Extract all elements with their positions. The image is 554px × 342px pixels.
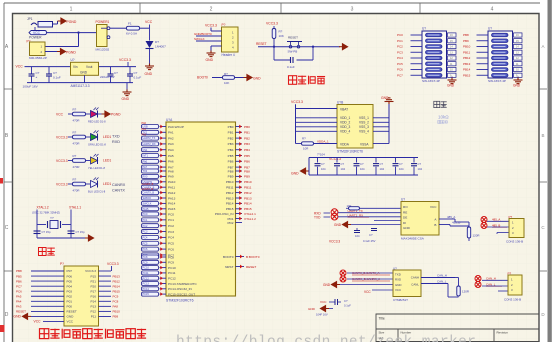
svg-text:C?: C? xyxy=(341,162,345,166)
wire expansion left pin PA5 xyxy=(31,295,64,297)
wire cap branch xyxy=(273,47,275,60)
svg-text:VSS_1: VSS_1 xyxy=(359,116,369,120)
svg-text:VCC: VCC xyxy=(145,20,153,24)
svg-text:GND: GND xyxy=(403,226,411,230)
ground can decoupling xyxy=(320,306,329,312)
svg-text:485_B: 485_B xyxy=(452,221,460,225)
port PC12 for PC12 xyxy=(142,276,159,280)
svg-text:P07: P07 xyxy=(67,269,73,273)
svg-text:P02: P02 xyxy=(67,294,73,298)
svg-text:VCC3.3: VCC3.3 xyxy=(56,135,68,139)
resistor R12 120R can termination xyxy=(457,286,460,296)
svg-text:U?: U? xyxy=(401,198,405,202)
port UART2_TX for PA2 xyxy=(142,136,159,140)
wire expansion right pin PB15 xyxy=(99,290,112,292)
svg-text:CS1: CS1 xyxy=(143,149,148,152)
svg-text:PB6: PB6 xyxy=(16,279,22,283)
svg-text:220uF/16V: 220uF/16V xyxy=(100,75,115,79)
wire txd stub xyxy=(324,216,331,218)
port x CANRX xyxy=(340,276,346,282)
wire P1 pin2 to PGND xyxy=(45,51,57,53)
svg-text:PB0: PB0 xyxy=(228,125,234,129)
svg-text:PB4: PB4 xyxy=(228,148,234,152)
dip element row 4 xyxy=(426,50,443,54)
svg-text:P01: P01 xyxy=(67,300,73,304)
svg-text:PC11: PC11 xyxy=(143,272,150,275)
wire rxd stub xyxy=(324,212,331,214)
note fasong chinese xyxy=(434,101,440,107)
dip element row 4 xyxy=(492,50,509,54)
wires vcc bus to vdd pins xyxy=(295,105,297,144)
label expansion header chinese xyxy=(40,329,49,339)
svg-text:PB10: PB10 xyxy=(463,45,471,49)
port x TXD xyxy=(331,213,338,220)
dip pin cell 3 xyxy=(448,44,457,48)
svg-text:P14: P14 xyxy=(90,300,96,304)
svg-text:PC11: PC11 xyxy=(168,271,176,275)
svg-text:100uF 16V: 100uF 16V xyxy=(23,85,39,89)
wires vss pins to gnd xyxy=(373,117,389,119)
svg-text:VSS_4: VSS_4 xyxy=(359,130,369,134)
svg-text:PA3: PA3 xyxy=(16,305,22,309)
svg-text:P20: P20 xyxy=(90,284,96,288)
port TX0 for PA8 xyxy=(142,169,159,173)
label crystal chinese xyxy=(39,248,47,256)
dip element row 6 xyxy=(426,62,443,66)
port RX0 for PA9 xyxy=(142,174,159,178)
svg-text:PA9: PA9 xyxy=(168,175,174,179)
svg-text:GND: GND xyxy=(14,315,22,319)
svg-text:PC7: PC7 xyxy=(16,284,22,288)
svg-text:POWER: POWER xyxy=(29,36,42,40)
svg-text:P?: P? xyxy=(222,23,226,27)
svg-text:2: 2 xyxy=(210,7,213,13)
window edge gray strip xyxy=(548,0,552,342)
svg-text:PC6: PC6 xyxy=(397,68,403,72)
arrow reset to mcu xyxy=(339,44,348,50)
svg-text:PB9: PB9 xyxy=(113,315,119,319)
svg-text:PB2: PB2 xyxy=(228,136,234,140)
svg-text:PB12: PB12 xyxy=(244,191,252,195)
wires to rs485 connector xyxy=(487,220,509,222)
svg-text:PA1: PA1 xyxy=(142,128,147,131)
svg-text:PB8: PB8 xyxy=(463,33,469,37)
svg-text:PC12: PC12 xyxy=(168,277,176,281)
svg-text:C: C xyxy=(541,225,545,230)
svg-text:CANH: CANH xyxy=(411,275,419,279)
dip element row 1 xyxy=(426,33,443,37)
svg-text:CAN_L: CAN_L xyxy=(437,280,447,284)
svg-text:AMS1117-3.3: AMS1117-3.3 xyxy=(71,84,90,88)
svg-text:PC9: PC9 xyxy=(143,261,148,264)
wire vcc to resistor led 3 xyxy=(68,160,73,162)
zone tick marks right xyxy=(539,88,547,90)
svg-text:PB3: PB3 xyxy=(228,142,234,146)
ground above power block xyxy=(385,98,394,104)
svg-text:PA8: PA8 xyxy=(168,169,174,173)
svg-text:R?: R? xyxy=(73,154,77,158)
svg-text:R?: R? xyxy=(73,131,77,135)
svg-text:RX0: RX0 xyxy=(143,176,148,179)
svg-text:PC0: PC0 xyxy=(397,33,403,37)
svg-text:CAN_H: CAN_H xyxy=(437,274,447,278)
svg-text:SWCLK: SWCLK xyxy=(143,203,152,206)
svg-text:PA3: PA3 xyxy=(168,142,174,146)
svg-text:PC0: PC0 xyxy=(168,212,174,216)
svg-text:C?: C? xyxy=(380,162,384,166)
svg-text:P?: P? xyxy=(60,262,64,266)
svg-text:PD0-OSC_IN: PD0-OSC_IN xyxy=(215,212,234,216)
svg-text:VCC: VCC xyxy=(33,31,41,35)
svg-text:PB12: PB12 xyxy=(226,191,234,195)
zone tick marks left xyxy=(4,88,13,90)
port USB for PA0-WKUP xyxy=(142,125,159,129)
svg-text:PC12: PC12 xyxy=(143,277,150,280)
svg-text:PA4: PA4 xyxy=(16,300,22,304)
svg-text:PC15: PC15 xyxy=(143,293,150,296)
svg-text:485_A: 485_A xyxy=(447,215,455,219)
svg-text:10kΩ: 10kΩ xyxy=(438,115,449,120)
svg-text:PB3: PB3 xyxy=(244,142,250,146)
svg-text:1: 1 xyxy=(70,7,73,13)
dip pin cell 2 xyxy=(448,39,457,43)
svg-text:C?: C? xyxy=(53,71,57,75)
svg-text:GND: GND xyxy=(513,84,521,88)
svg-text:PC13: PC13 xyxy=(143,283,150,286)
ground crystal xyxy=(85,235,94,241)
svg-text:https://blog.csdn.net/zeek_mar: https://blog.csdn.net/zeek_marker xyxy=(176,335,476,342)
svg-text:D: D xyxy=(541,312,545,317)
svg-text:GND: GND xyxy=(323,283,331,287)
svg-text:SWCLK: SWCLK xyxy=(194,37,205,41)
svg-text:P04: P04 xyxy=(67,284,73,288)
power ground PGND at P1 xyxy=(57,49,66,55)
svg-text:PC7: PC7 xyxy=(397,73,403,77)
wire dip left pin PC5 xyxy=(411,63,423,65)
dip pin cell 8 xyxy=(514,73,523,77)
svg-text:CANTX: CANTX xyxy=(112,188,125,192)
svg-text:VCC3.3: VCC3.3 xyxy=(329,240,340,244)
svg-text:VSSA: VSSA xyxy=(360,142,369,146)
svg-text:120R: 120R xyxy=(462,290,469,294)
svg-text:Vout: Vout xyxy=(86,65,92,69)
svg-text:SW-16ST-4P: SW-16ST-4P xyxy=(422,79,440,83)
svg-text:PB9: PB9 xyxy=(228,175,234,179)
svg-text:470R: 470R xyxy=(73,142,80,146)
svg-text:PC8: PC8 xyxy=(168,255,174,259)
svg-text:0.1uF: 0.1uF xyxy=(53,76,61,80)
dip pin cell 2 xyxy=(514,39,523,43)
svg-text:PB8: PB8 xyxy=(16,269,22,273)
svg-text:VCC3.3: VCC3.3 xyxy=(56,182,68,186)
svg-text:PA4: PA4 xyxy=(168,148,174,152)
svg-text:PB5: PB5 xyxy=(16,274,22,278)
svg-text:A: A xyxy=(5,44,9,50)
cap bank bottom rail xyxy=(309,174,418,176)
svg-text:VCC: VCC xyxy=(16,65,24,69)
svg-text:PB15: PB15 xyxy=(244,207,252,211)
wire header pin3 SWCLK xyxy=(196,40,222,42)
svg-text:C?: C? xyxy=(134,71,138,75)
svg-text:PC5: PC5 xyxy=(168,242,174,246)
svg-text:VDD_4: VDD_4 xyxy=(340,130,351,134)
svg-text:PA14: PA14 xyxy=(168,202,176,206)
wire diode to ground xyxy=(149,49,151,64)
port x 485A xyxy=(481,217,487,223)
title block frame xyxy=(376,314,539,342)
port SWCLK for PA14 xyxy=(142,201,159,205)
capacitor C18 104 rs485 xyxy=(371,228,377,230)
svg-text:VSS_2: VSS_2 xyxy=(359,121,369,125)
svg-text:PC1: PC1 xyxy=(143,219,148,222)
svg-text:VCC3.3: VCC3.3 xyxy=(107,262,119,266)
svg-text:RESET: RESET xyxy=(256,42,267,46)
wire vcc to resistor led 2 xyxy=(68,136,73,138)
svg-text:1N4007: 1N4007 xyxy=(155,45,166,49)
port PC6 for PC6 xyxy=(142,247,159,251)
capacitor C3 220uF polarized xyxy=(110,72,112,75)
svg-text:VCC3.3: VCC3.3 xyxy=(56,159,68,163)
svg-text:VCC: VCC xyxy=(364,290,371,294)
svg-text:PC2: PC2 xyxy=(168,224,174,228)
svg-text:CON3 136-B: CON3 136-B xyxy=(506,240,523,244)
svg-text:PC3: PC3 xyxy=(168,230,174,234)
capacitor bank C5 104 xyxy=(317,158,319,163)
wire dip left pin PB11 xyxy=(477,51,489,53)
wire regulator gnd to rail xyxy=(84,75,86,82)
wire VCC to switch xyxy=(47,32,97,34)
port PC7 for PC7 xyxy=(142,253,159,257)
svg-text:PC4: PC4 xyxy=(397,56,403,60)
dip element row 5 xyxy=(426,56,443,60)
svg-text:PB14: PB14 xyxy=(463,68,471,72)
led LED3 xyxy=(91,157,98,164)
svg-text:PA6: PA6 xyxy=(168,160,174,164)
resistor R3 10K pullup xyxy=(272,29,276,39)
power ground at boot resistor xyxy=(244,75,253,81)
dip right bus to gnd xyxy=(451,77,453,78)
svg-text:P17: P17 xyxy=(90,289,96,293)
svg-text:P00: P00 xyxy=(67,305,73,309)
svg-text:Vin: Vin xyxy=(73,65,78,69)
svg-text:10K: 10K xyxy=(224,81,229,85)
diode D1 1N4007 xyxy=(146,41,154,48)
svg-text:BOOT0: BOOT0 xyxy=(223,255,234,259)
red edge mark 2 xyxy=(0,325,5,332)
svg-text:PC4: PC4 xyxy=(168,236,174,240)
svg-text:C?: C? xyxy=(399,162,403,166)
svg-text:P06: P06 xyxy=(67,274,73,278)
port PC11 for PC11 xyxy=(142,271,159,275)
svg-text:PC6: PC6 xyxy=(143,248,148,251)
capacitor bank C6 104 xyxy=(336,158,338,163)
svg-text:PB12: PB12 xyxy=(463,56,471,60)
svg-text:PB14: PB14 xyxy=(244,202,252,206)
svg-text:104: 104 xyxy=(321,167,326,171)
svg-text:C?: C? xyxy=(321,162,325,166)
svg-text:PC5: PC5 xyxy=(143,242,148,245)
svg-text:P16: P16 xyxy=(90,294,96,298)
svg-text:LED1: LED1 xyxy=(103,159,111,163)
dip pin cell 1 xyxy=(448,33,457,37)
wire expansion left pin PB8 xyxy=(31,270,64,272)
svg-text:GRN LED D1-8: GRN LED D1-8 xyxy=(88,143,106,147)
dip pin cell 5 xyxy=(448,56,457,60)
svg-text:PA5: PA5 xyxy=(16,294,22,298)
svg-text:VCC: VCC xyxy=(56,112,64,116)
wires rs485 A B out xyxy=(439,218,455,220)
svg-text:U?A: U?A xyxy=(166,118,173,122)
wire expansion left pin PB6 xyxy=(31,280,64,282)
svg-text:PGND: PGND xyxy=(111,113,121,117)
port x CANH right xyxy=(475,276,481,282)
svg-text:0.1uF 25V: 0.1uF 25V xyxy=(363,239,376,243)
led LED1 xyxy=(91,111,98,118)
svg-text:P05: P05 xyxy=(67,279,73,283)
svg-text:U?: U? xyxy=(422,27,426,31)
svg-text:RO: RO xyxy=(403,205,408,209)
wire expansion right pin PB10 xyxy=(99,310,112,312)
svg-text:PB11: PB11 xyxy=(226,186,234,190)
svg-text:CANTX_B: CANTX_B xyxy=(143,192,155,195)
port x CANTX xyxy=(340,270,346,276)
svg-text:104: 104 xyxy=(380,167,385,171)
svg-text:Y?: Y? xyxy=(50,216,54,220)
wire expansion right pin PB11 xyxy=(99,270,112,272)
wires to can connector xyxy=(482,279,508,281)
dip element row 2 xyxy=(492,39,509,43)
svg-text:SW-16ST-4P: SW-16ST-4P xyxy=(488,79,506,83)
svg-text:PA11: PA11 xyxy=(168,186,175,190)
port PA6 for PA6 xyxy=(142,159,159,163)
svg-text:SW-PB: SW-PB xyxy=(288,50,298,54)
svg-text:U?: U? xyxy=(71,58,75,62)
svg-text:104: 104 xyxy=(418,167,423,171)
wires rs485 ic left xyxy=(360,207,402,209)
port PA15 for PA15 xyxy=(142,207,159,211)
wire header pin2 SWDIO xyxy=(196,35,222,37)
svg-text:PB10: PB10 xyxy=(226,180,234,184)
svg-text:+: + xyxy=(36,75,38,79)
wire expansion right pin PB14 xyxy=(99,285,112,287)
svg-text:JP1: JP1 xyxy=(27,17,33,21)
svg-text:XTAL1.1: XTAL1.1 xyxy=(69,206,81,210)
svg-text:C? 15p: C? 15p xyxy=(42,230,51,234)
svg-text:STM32F103RCT6: STM32F103RCT6 xyxy=(337,149,363,153)
dip pin cell 1 xyxy=(514,33,523,37)
svg-text:PA12: PA12 xyxy=(168,191,176,195)
svg-text:VDD_3: VDD_3 xyxy=(340,125,351,129)
wire junction down to connector P1 xyxy=(78,33,80,47)
wire reset net xyxy=(273,39,275,47)
power ground PGND at JP1 xyxy=(58,18,67,24)
dip element row 3 xyxy=(492,45,509,49)
svg-text:600-0566-2P: 600-0566-2P xyxy=(29,56,47,60)
svg-text:P03: P03 xyxy=(67,289,73,293)
port PC4 for PC4 xyxy=(142,235,159,239)
svg-text:PC1: PC1 xyxy=(397,39,403,43)
svg-text:GND: GND xyxy=(395,283,401,287)
wire resistor to led 4 xyxy=(86,183,91,185)
zone tick marks top xyxy=(139,3,141,13)
svg-text:CTM8251T: CTM8251T xyxy=(393,298,408,302)
svg-text:PC9: PC9 xyxy=(113,294,119,298)
port UART2_RX for PA3 xyxy=(142,142,159,146)
svg-text:C?: C? xyxy=(369,233,373,237)
svg-text:7*104: 7*104 xyxy=(317,153,325,157)
wire vcc rail to regulator xyxy=(25,66,71,68)
wire vcc to resistor led 4 xyxy=(68,183,73,185)
svg-text:VDD_1: VDD_1 xyxy=(340,116,351,120)
ground at header xyxy=(207,51,216,57)
svg-text:0.1uF: 0.1uF xyxy=(287,65,295,69)
svg-text:0.1uF: 0.1uF xyxy=(134,76,142,80)
svg-text:PB4: PB4 xyxy=(244,148,250,152)
svg-text:VBAT: VBAT xyxy=(340,108,348,112)
svg-text:BLU LED D1-8: BLU LED D1-8 xyxy=(88,190,106,194)
svg-text:PC15-OSC32_OUT: PC15-OSC32_OUT xyxy=(168,292,195,296)
dip element row 8 xyxy=(492,73,509,77)
svg-text:CON3 136-B: CON3 136-B xyxy=(504,298,521,302)
port VCC power input xyxy=(29,31,47,35)
capacitor bank C7 104 xyxy=(356,158,358,163)
svg-text:PB11: PB11 xyxy=(244,186,252,190)
svg-text:YEL LED D1-8: YEL LED D1-8 xyxy=(88,166,105,170)
svg-text:PC3: PC3 xyxy=(143,231,148,234)
svg-text:Header 4: Header 4 xyxy=(222,53,235,57)
svg-text:PC4: PC4 xyxy=(143,237,148,240)
svg-text:PA2: PA2 xyxy=(142,134,147,137)
svg-text:CANRX: CANRX xyxy=(112,183,126,187)
port PC14 for PC14-OSC32_IN xyxy=(142,287,159,291)
svg-text:PC9: PC9 xyxy=(168,261,174,265)
svg-text:PB6: PB6 xyxy=(244,160,250,164)
svg-text:PD2: PD2 xyxy=(227,221,233,225)
svg-text:PGND: PGND xyxy=(67,20,77,24)
svg-text:NRST: NRST xyxy=(225,265,234,269)
svg-text:104: 104 xyxy=(341,167,346,171)
svg-text:CANTX_B: CANTX_B xyxy=(142,188,154,191)
svg-text:PA15: PA15 xyxy=(168,207,176,211)
svg-text:PB15: PB15 xyxy=(113,289,121,293)
wire dip left pin PB10 xyxy=(477,46,489,48)
svg-text:TX0: TX0 xyxy=(143,170,148,173)
svg-text:PB8: PB8 xyxy=(244,169,250,173)
dip element row 6 xyxy=(492,62,509,66)
svg-text:P11: P11 xyxy=(91,315,97,319)
svg-text:VCC: VCC xyxy=(395,288,401,292)
wire header pin1 to VCC3.3 xyxy=(211,30,222,32)
port PC1 for PC1 xyxy=(142,218,159,222)
dip pin cell 7 xyxy=(448,67,457,71)
wire expansion left pin PA4 xyxy=(31,300,64,302)
label reset circuit chinese xyxy=(289,76,297,85)
svg-text:MAX3485E CSA: MAX3485E CSA xyxy=(401,237,425,241)
svg-text:P13: P13 xyxy=(90,305,96,309)
svg-text:DE: DE xyxy=(403,216,407,220)
svg-text:PC13-TAMPER-RTC: PC13-TAMPER-RTC xyxy=(168,282,198,286)
svg-text:GND: GND xyxy=(253,76,261,80)
svg-text:PB10: PB10 xyxy=(244,180,252,184)
svg-text:6V 0.5A: 6V 0.5A xyxy=(126,32,138,36)
svg-text:RESET: RESET xyxy=(288,36,298,40)
dip pin cell 6 xyxy=(514,62,523,66)
port PC10 for PC10 xyxy=(142,266,159,270)
wire expansion left pin RESET xyxy=(31,310,64,312)
svg-text:PB15: PB15 xyxy=(463,73,471,77)
svg-text:RESET: RESET xyxy=(67,310,77,314)
svg-text:PB13: PB13 xyxy=(244,196,252,200)
